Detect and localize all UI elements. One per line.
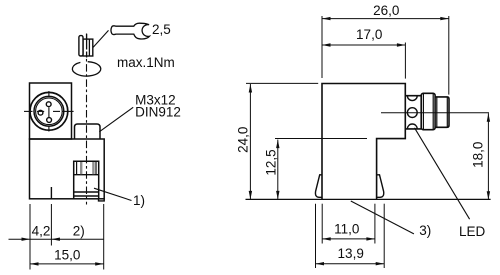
svg-text:4,2: 4,2 — [32, 224, 51, 239]
svg-text:3): 3) — [419, 223, 431, 238]
svg-text:max.1Nm: max.1Nm — [117, 55, 175, 70]
svg-text:18,0: 18,0 — [470, 142, 485, 168]
svg-text:26,0: 26,0 — [373, 3, 399, 18]
svg-text:LED: LED — [459, 224, 486, 239]
svg-text:2,5: 2,5 — [152, 22, 171, 37]
svg-text:15,0: 15,0 — [54, 248, 80, 263]
svg-text:2): 2) — [73, 224, 85, 239]
svg-text:12,5: 12,5 — [263, 149, 278, 175]
svg-text:1): 1) — [133, 193, 145, 208]
svg-text:DIN912: DIN912 — [135, 105, 181, 120]
svg-text:11,0: 11,0 — [334, 221, 359, 236]
svg-text:17,0: 17,0 — [356, 27, 382, 42]
svg-text:24,0: 24,0 — [236, 127, 251, 153]
svg-text:13,9: 13,9 — [338, 246, 364, 261]
